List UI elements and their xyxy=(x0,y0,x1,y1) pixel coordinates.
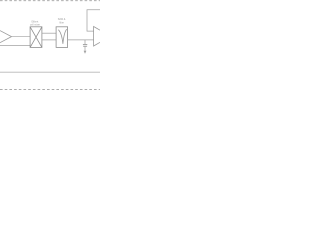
wire from top edge down to A2 upper input xyxy=(87,10,100,31)
wire mixer to filter lower xyxy=(42,39,56,41)
bottom dashed boundary line xyxy=(0,89,100,91)
filter response curve xyxy=(58,29,66,44)
wire filter output to amplifier A2 xyxy=(68,39,94,41)
wire A1 output to mixer xyxy=(12,36,31,38)
mixer U1 xyxy=(30,27,42,48)
svg-text:filter: filter xyxy=(59,21,64,24)
capacitor C1 xyxy=(83,43,87,45)
wire lower-left input to mixer xyxy=(0,45,30,47)
filter FL1 (box with band response curve) xyxy=(56,27,68,48)
svg-text:cell mixer: cell mixer xyxy=(30,24,40,27)
top dashed boundary line xyxy=(0,0,100,2)
amplifier A1 (left, cut by image edge) xyxy=(0,31,12,43)
solid divider line xyxy=(0,71,100,73)
wire mixer to filter upper xyxy=(42,32,56,34)
ground (arrow style) xyxy=(84,46,86,51)
capacitor C1 branch wire xyxy=(84,40,86,44)
amplifier A2 (right, cut by image edge) xyxy=(94,27,100,47)
